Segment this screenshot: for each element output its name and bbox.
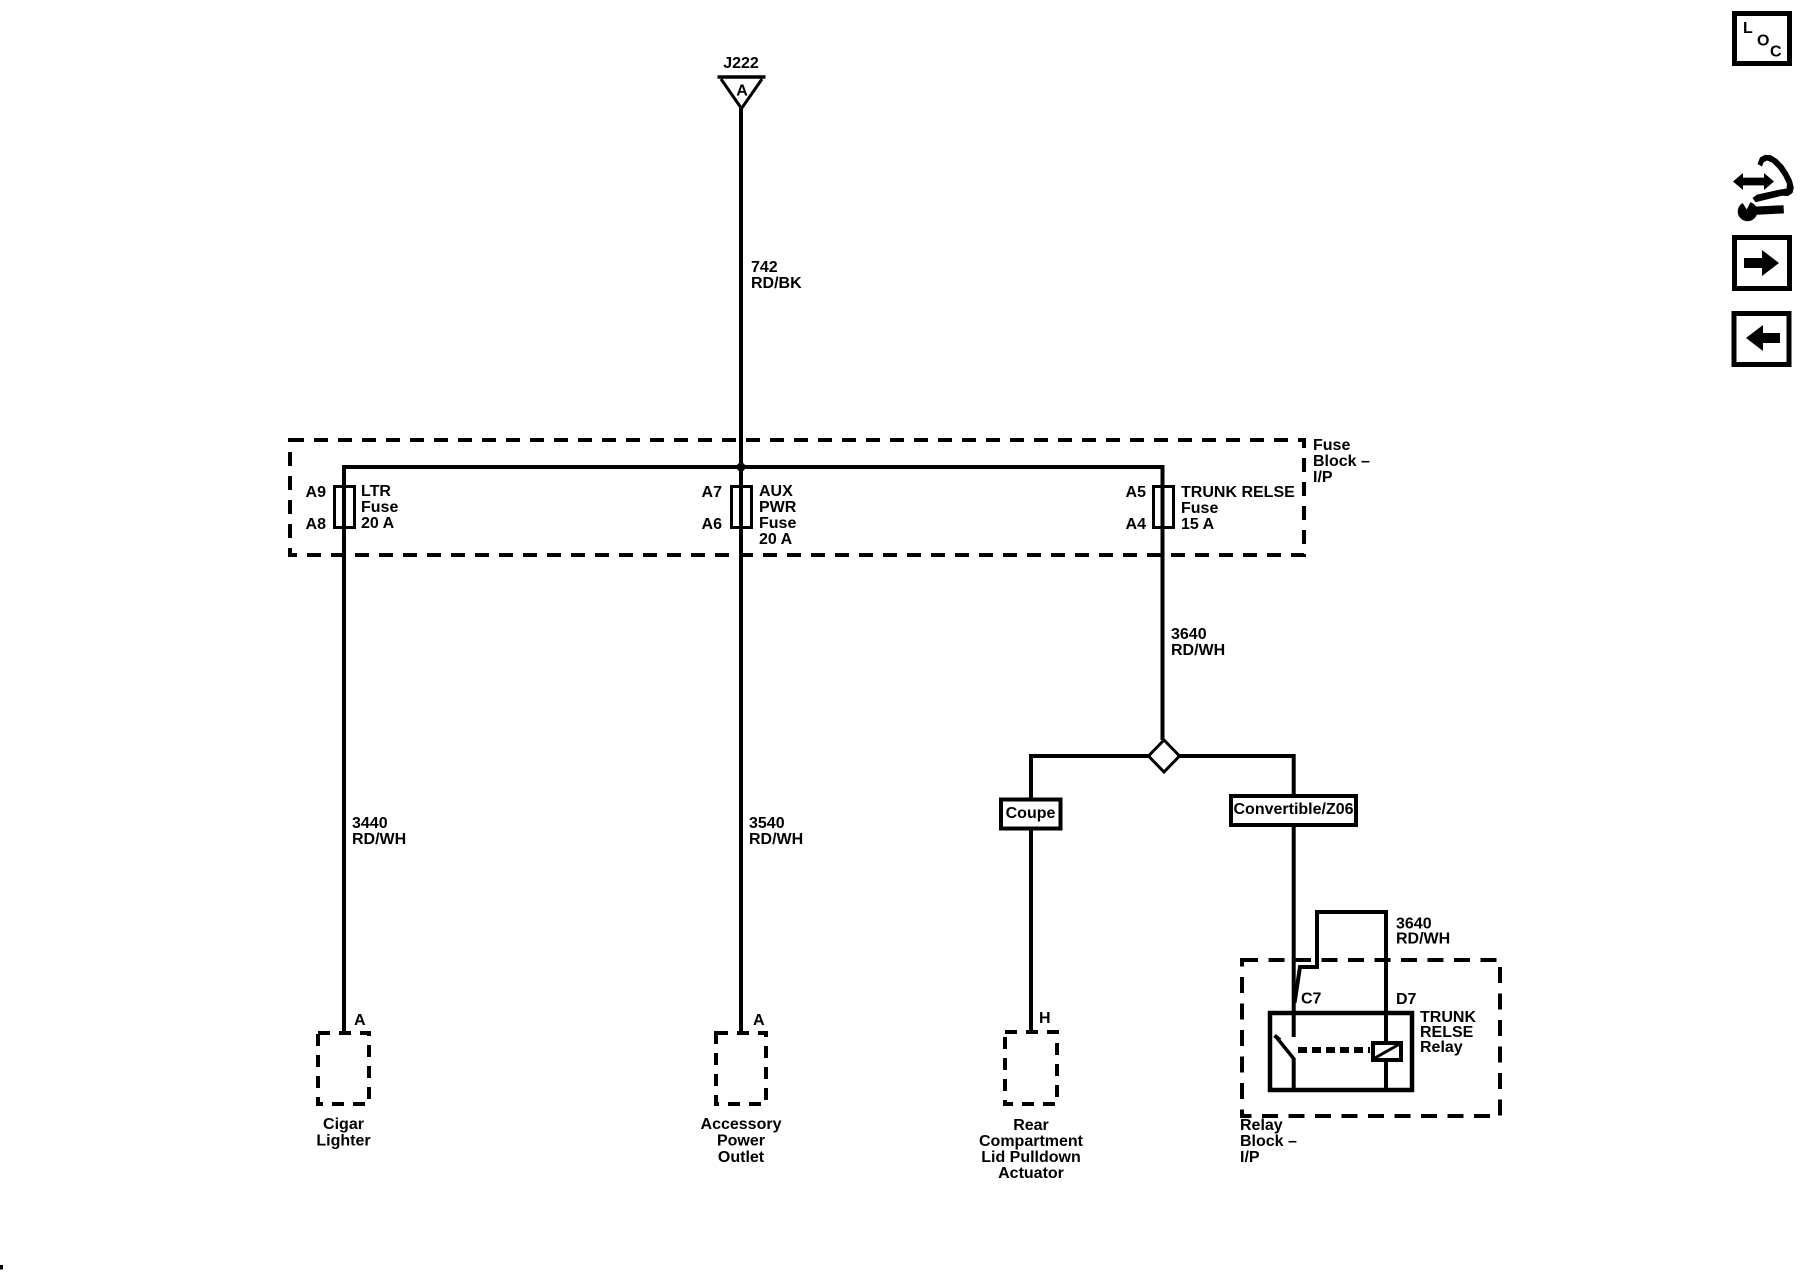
accessory power outlet label	[701, 1116, 782, 1166]
fuse F1 value label	[361, 483, 398, 532]
junction node at bus and 742 wire	[737, 463, 746, 472]
page edge mark	[0, 1265, 3, 1270]
nav icon back arrow box	[1734, 314, 1789, 365]
svg-text:Block –: Block –	[1240, 1133, 1297, 1150]
svg-text:742: 742	[751, 259, 778, 276]
svg-text:RD/WH: RD/WH	[749, 831, 803, 848]
relay block I/P dashed box	[1242, 960, 1500, 1116]
relay coil	[1373, 1043, 1401, 1060]
wire label 742 RD/BK	[751, 259, 802, 292]
fuse F3 value label	[1181, 484, 1295, 533]
fuse F3 TRUNK RELSE 15A	[1154, 487, 1174, 528]
svg-text:15 A: 15 A	[1181, 516, 1215, 533]
nav icon forward arrow box	[1735, 238, 1790, 289]
svg-text:I/P: I/P	[1313, 469, 1333, 486]
svg-text:Actuator: Actuator	[998, 1165, 1064, 1182]
service icon hook stroke	[1753, 155, 1794, 202]
wire label 3540 RD/WH	[749, 815, 803, 848]
wire label 3640 RD/WH	[1171, 626, 1225, 659]
connector J222 triangle symbol	[718, 77, 766, 109]
svg-text:H: H	[1039, 1010, 1051, 1027]
svg-text:Fuse: Fuse	[1181, 500, 1218, 517]
wire label 3640 RD/WH at relay	[1396, 916, 1450, 948]
svg-text:Lid Pulldown: Lid Pulldown	[981, 1149, 1081, 1166]
svg-text:I/P: I/P	[1240, 1149, 1260, 1166]
wire label 3440 RD/WH	[352, 815, 406, 848]
svg-text:C: C	[1770, 44, 1782, 61]
fuse F2 AUX PWR 20A	[732, 487, 752, 528]
wire 742 from J222 to fuse block bus	[739, 108, 743, 467]
svg-text:3540: 3540	[749, 815, 785, 832]
svg-text:Relay: Relay	[1420, 1039, 1463, 1056]
fuse F1 LTR 20A	[335, 487, 355, 528]
connector rear compartment lid pulldown actuator dashed box	[1005, 1032, 1057, 1104]
svg-text:3440: 3440	[352, 815, 388, 832]
actuator label	[979, 1117, 1084, 1182]
svg-text:A: A	[736, 83, 748, 100]
svg-text:Fuse: Fuse	[361, 499, 398, 516]
svg-text:Block –: Block –	[1313, 453, 1370, 470]
svg-text:A5: A5	[1126, 484, 1147, 501]
cigar lighter label	[316, 1116, 370, 1150]
svg-text:RD/BK: RD/BK	[751, 275, 802, 292]
svg-text:A: A	[753, 1012, 765, 1029]
svg-text:Power: Power	[717, 1133, 765, 1150]
svg-text:Coupe: Coupe	[1006, 805, 1056, 822]
relay coil lower stub to box edge	[1384, 1062, 1388, 1090]
connector accessory power outlet dashed box	[716, 1033, 766, 1104]
svg-text:Relay: Relay	[1240, 1117, 1283, 1134]
svg-text:Cigar: Cigar	[323, 1116, 364, 1133]
LOC icon box	[1735, 14, 1790, 64]
svg-text:Accessory: Accessory	[701, 1116, 782, 1133]
relay block label	[1240, 1117, 1297, 1166]
svg-text:RD/WH: RD/WH	[352, 831, 406, 848]
svg-text:A6: A6	[702, 516, 723, 533]
splice diamond S340	[1149, 740, 1180, 772]
svg-text:Convertible/Z06: Convertible/Z06	[1233, 801, 1353, 818]
svg-text:3640: 3640	[1171, 626, 1207, 643]
svg-text:RD/WH: RD/WH	[1171, 642, 1225, 659]
svg-text:Rear: Rear	[1013, 1117, 1049, 1134]
svg-text:O: O	[1757, 33, 1769, 50]
svg-text:L: L	[1743, 20, 1753, 37]
svg-text:Fuse: Fuse	[1313, 437, 1350, 454]
svg-text:RD/WH: RD/WH	[1396, 931, 1450, 948]
relay switch contact tick	[1275, 1036, 1281, 1041]
option box Convertible/Z06	[1231, 796, 1356, 825]
svg-text:AUX: AUX	[759, 483, 793, 500]
svg-text:A9: A9	[306, 484, 327, 501]
connector cigar lighter dashed box	[318, 1033, 369, 1104]
svg-text:Lighter: Lighter	[316, 1133, 370, 1150]
svg-text:Fuse: Fuse	[759, 515, 796, 532]
fuse block label	[1313, 437, 1370, 486]
wire bus inside fuse block with left drop to cigar lighter and right drop to splice	[344, 467, 1163, 1031]
svg-text:C7: C7	[1301, 991, 1322, 1008]
wire branch from splice to coupe and convertible drops	[1031, 756, 1294, 1037]
service icon wrench	[1738, 198, 1784, 221]
svg-text:20 A: 20 A	[759, 531, 793, 548]
svg-text:PWR: PWR	[759, 499, 797, 516]
svg-text:LTR: LTR	[361, 483, 391, 500]
relay switch arm	[1277, 1038, 1294, 1059]
relay switch lower stub	[1292, 1058, 1296, 1090]
svg-text:TRUNK RELSE: TRUNK RELSE	[1181, 484, 1295, 501]
relay name label	[1420, 1009, 1476, 1056]
wire jumper loop from pin C7 to pin D7 with 3640 circuit	[1295, 912, 1387, 1041]
svg-text:A: A	[354, 1012, 366, 1029]
svg-text:A4: A4	[1126, 516, 1147, 533]
fuse F2 value label	[759, 483, 797, 548]
wire middle drop from J222 through AUX PWR fuse to accessory outlet	[739, 467, 743, 1031]
svg-text:A7: A7	[702, 484, 723, 501]
svg-text:20 A: 20 A	[361, 515, 395, 532]
relay K38 TRUNK RELSE box	[1270, 1013, 1412, 1090]
option box Coupe	[1001, 800, 1061, 829]
svg-text:Outlet: Outlet	[718, 1149, 765, 1166]
svg-text:A8: A8	[306, 516, 327, 533]
svg-text:Compartment: Compartment	[979, 1133, 1084, 1150]
svg-text:J222: J222	[723, 55, 759, 72]
relay actuation dashed link	[1298, 1047, 1370, 1053]
fuse block I/P dashed box	[290, 440, 1304, 555]
svg-text:D7: D7	[1396, 991, 1417, 1008]
service icon double arrow	[1733, 173, 1774, 190]
